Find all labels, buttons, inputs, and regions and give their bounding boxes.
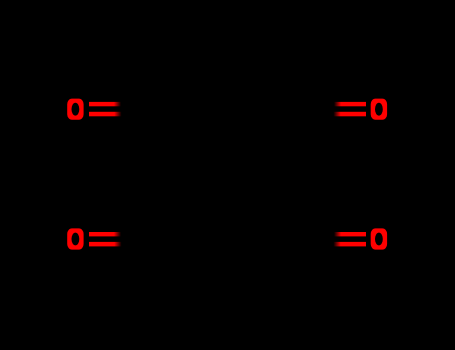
- double bond C=O upper line (bottom-left): [89, 232, 121, 236]
- oxygen atom O (bottom-left): [67, 228, 83, 249]
- double bond C=O upper line (top-left): [89, 102, 121, 106]
- double bond C=O upper line (bottom-right): [334, 232, 366, 236]
- oxygen atom O (top-right): [371, 99, 387, 120]
- double bond C=O lower line (top-left): [89, 112, 122, 117]
- oxygen atom O (top-left): [67, 99, 83, 120]
- oxygen atom O (bottom-right): [371, 228, 387, 249]
- double bond C=O lower line (top-right): [334, 112, 367, 117]
- double bond C=O lower line (bottom-right): [334, 242, 367, 247]
- double bond C=O lower line (bottom-left): [89, 242, 122, 247]
- double bond C=O upper line (top-right): [334, 102, 366, 106]
